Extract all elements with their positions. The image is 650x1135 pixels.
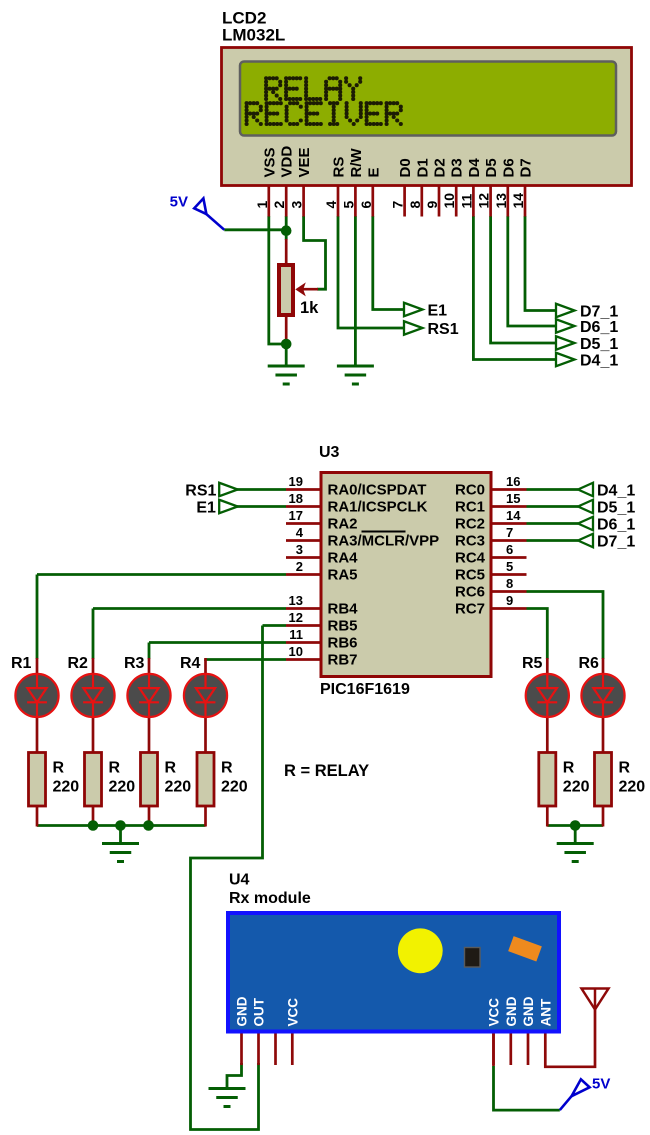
svg-text:7: 7: [506, 525, 513, 540]
svg-text:R: R: [109, 760, 121, 777]
svg-text:R: R: [619, 760, 631, 777]
svg-text:R/W: R/W: [348, 148, 365, 178]
svg-text:D1: D1: [414, 158, 431, 177]
svg-text:RB4: RB4: [328, 601, 359, 618]
svg-text:RB6: RB6: [328, 635, 358, 652]
svg-text:RA0/ICSPDAT: RA0/ICSPDAT: [328, 482, 427, 499]
svg-text:RC5: RC5: [455, 567, 485, 584]
svg-text:LM032L: LM032L: [222, 26, 285, 45]
svg-text:7: 7: [390, 201, 406, 209]
svg-text:R: R: [221, 760, 233, 777]
svg-text:RA1/ICSPCLK: RA1/ICSPCLK: [328, 499, 428, 516]
svg-text:OUT: OUT: [252, 997, 267, 1026]
svg-text:RB7: RB7: [328, 652, 358, 669]
svg-text:R6: R6: [579, 655, 600, 672]
svg-text:R: R: [165, 760, 177, 777]
svg-text:3: 3: [296, 542, 303, 557]
svg-text:R = RELAY: R = RELAY: [284, 762, 369, 780]
svg-text:VSS: VSS: [261, 147, 278, 177]
svg-text:11: 11: [458, 193, 474, 208]
svg-text:D6_1: D6_1: [580, 319, 618, 336]
svg-text:VCC: VCC: [285, 998, 300, 1027]
svg-text:10: 10: [289, 644, 303, 659]
svg-text:5V: 5V: [592, 1076, 610, 1093]
svg-text:RS1: RS1: [428, 321, 459, 338]
svg-text:R2: R2: [68, 655, 89, 672]
svg-text:RA5: RA5: [328, 567, 358, 584]
svg-text:3: 3: [289, 201, 305, 209]
svg-text:220: 220: [53, 779, 80, 796]
svg-text:220: 220: [109, 779, 136, 796]
svg-text:D4_1: D4_1: [580, 353, 618, 370]
svg-text:Rx module: Rx module: [229, 890, 311, 907]
svg-text:R: R: [563, 760, 575, 777]
svg-text:U4: U4: [229, 872, 250, 889]
svg-text:RC0: RC0: [455, 482, 485, 499]
svg-text:18: 18: [289, 491, 303, 506]
svg-text:E1: E1: [196, 500, 216, 517]
svg-text:E1: E1: [428, 303, 448, 320]
svg-text:RC1: RC1: [455, 499, 485, 516]
svg-text:12: 12: [289, 610, 303, 625]
svg-text:D2: D2: [432, 158, 449, 177]
svg-text:14: 14: [506, 508, 521, 523]
svg-text:D5_1: D5_1: [580, 336, 618, 353]
svg-text:8: 8: [506, 576, 513, 591]
svg-text:R5: R5: [522, 655, 543, 672]
svg-text:E: E: [365, 167, 382, 177]
svg-text:PIC16F1619: PIC16F1619: [320, 681, 410, 698]
svg-text:RA3/MCLR/VPP: RA3/MCLR/VPP: [328, 533, 440, 550]
svg-text:VDD: VDD: [279, 146, 296, 178]
svg-text:D3: D3: [449, 158, 466, 177]
svg-text:220: 220: [619, 779, 646, 796]
svg-text:VEE: VEE: [296, 147, 313, 177]
svg-text:6: 6: [506, 542, 513, 557]
svg-text:D5: D5: [483, 158, 500, 177]
svg-text:D6: D6: [500, 158, 517, 177]
svg-text:R: R: [53, 760, 65, 777]
svg-text:D0: D0: [397, 158, 414, 177]
svg-text:RA2: RA2: [328, 516, 358, 533]
svg-text:RC6: RC6: [455, 584, 485, 601]
svg-text:VCC: VCC: [487, 998, 502, 1027]
svg-text:13: 13: [289, 593, 303, 608]
svg-text:2: 2: [271, 201, 287, 209]
svg-text:11: 11: [289, 627, 303, 642]
svg-text:GND: GND: [504, 996, 519, 1026]
svg-text:220: 220: [165, 779, 192, 796]
svg-text:10: 10: [441, 193, 457, 209]
svg-text:19: 19: [289, 474, 303, 489]
svg-text:16: 16: [506, 474, 520, 489]
svg-text:8: 8: [407, 201, 423, 209]
svg-text:ANT: ANT: [538, 998, 553, 1026]
svg-text:RC7: RC7: [455, 601, 485, 618]
svg-text:D4: D4: [466, 158, 483, 178]
svg-text:2: 2: [296, 559, 303, 574]
svg-text:R1: R1: [11, 655, 32, 672]
svg-text:R4: R4: [180, 655, 201, 672]
svg-text:13: 13: [493, 193, 509, 209]
svg-text:1: 1: [254, 201, 270, 209]
svg-text:R3: R3: [124, 655, 145, 672]
svg-text:1k: 1k: [300, 299, 319, 317]
svg-text:GND: GND: [235, 996, 250, 1026]
svg-text:D4_1: D4_1: [597, 483, 635, 500]
svg-text:17: 17: [289, 508, 303, 523]
svg-text:D5_1: D5_1: [597, 500, 635, 517]
svg-text:D6_1: D6_1: [597, 517, 635, 534]
svg-text:GND: GND: [521, 996, 536, 1026]
svg-text:14: 14: [510, 193, 526, 209]
svg-text:RB5: RB5: [328, 618, 358, 635]
svg-text:220: 220: [563, 779, 590, 796]
svg-text:5: 5: [506, 559, 513, 574]
svg-text:4: 4: [296, 525, 304, 540]
svg-text:U3: U3: [319, 444, 340, 461]
svg-text:RS: RS: [331, 157, 348, 178]
svg-text:5: 5: [340, 201, 356, 209]
svg-text:RS1: RS1: [185, 483, 216, 500]
svg-text:D7_1: D7_1: [597, 534, 635, 551]
svg-text:RA4: RA4: [328, 550, 359, 567]
svg-text:5V: 5V: [170, 194, 188, 211]
svg-text:9: 9: [424, 201, 440, 209]
svg-text:4: 4: [323, 201, 339, 209]
svg-text:220: 220: [221, 779, 248, 796]
svg-text:15: 15: [506, 491, 520, 506]
svg-text:RC3: RC3: [455, 533, 485, 550]
svg-text:RC4: RC4: [455, 550, 486, 567]
svg-text:6: 6: [358, 201, 374, 209]
svg-text:D7: D7: [518, 158, 535, 177]
svg-text:9: 9: [506, 593, 513, 608]
svg-text:D7_1: D7_1: [580, 304, 618, 321]
svg-text:12: 12: [476, 193, 492, 209]
svg-text:RC2: RC2: [455, 516, 485, 533]
